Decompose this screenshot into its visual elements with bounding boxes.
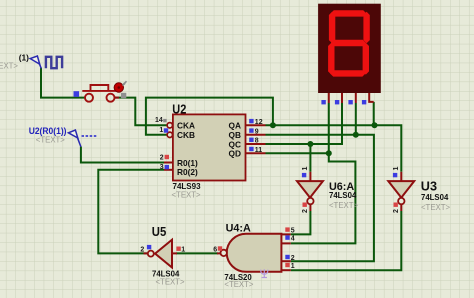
svg-text:2: 2 [291, 255, 295, 262]
svg-text:QA: QA [229, 121, 241, 131]
svg-text:U2: U2 [172, 103, 186, 117]
svg-text:4: 4 [291, 236, 295, 243]
svg-text:U5: U5 [152, 225, 167, 239]
svg-text:1: 1 [159, 127, 163, 134]
svg-text:U3: U3 [421, 179, 437, 194]
svg-text:<TEXT>: <TEXT> [156, 278, 185, 287]
svg-text:(1): (1) [19, 52, 29, 62]
svg-text:1: 1 [291, 263, 295, 270]
svg-text:<TEXT>: <TEXT> [172, 191, 201, 200]
svg-text:CKB: CKB [177, 130, 195, 140]
svg-text:2: 2 [393, 209, 400, 213]
svg-text:2: 2 [302, 209, 309, 213]
svg-text:11: 11 [255, 147, 263, 154]
svg-text:<TEXT>: <TEXT> [224, 280, 253, 289]
svg-text:<TEXT>: <TEXT> [421, 203, 450, 212]
svg-text:R0(2): R0(2) [177, 167, 198, 177]
svg-text:9: 9 [255, 129, 259, 136]
svg-text:QD: QD [229, 149, 241, 159]
svg-text:<TEXT>: <TEXT> [0, 61, 18, 70]
svg-text:6: 6 [213, 247, 217, 254]
svg-text:14: 14 [155, 117, 163, 124]
svg-text:12: 12 [255, 119, 263, 126]
svg-text:U4:A: U4:A [226, 222, 251, 234]
svg-text:<TEXT>: <TEXT> [36, 135, 65, 144]
svg-text:3: 3 [160, 164, 164, 171]
svg-text:1: 1 [302, 167, 309, 171]
svg-text:2: 2 [140, 247, 144, 254]
svg-text:5: 5 [291, 228, 295, 235]
svg-text:<TEXT>: <TEXT> [329, 201, 358, 210]
svg-text:1: 1 [393, 167, 400, 171]
svg-text:74LS04: 74LS04 [421, 193, 449, 202]
svg-text:74LS04: 74LS04 [329, 191, 357, 200]
svg-text:2: 2 [160, 155, 164, 162]
svg-text:8: 8 [255, 138, 259, 145]
svg-text:1: 1 [181, 247, 185, 254]
svg-text:CKA: CKA [177, 121, 195, 131]
